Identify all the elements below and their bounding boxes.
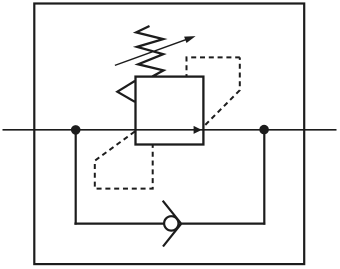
check valve V1 seat [163,201,182,247]
wire bottom left segment [74,223,164,225]
node right junction [259,125,269,135]
regulator body U1 [136,77,204,145]
pilot line right diagonal (dashed) [204,57,240,126]
adjustment arrow head [184,36,196,43]
relief vent triangle [117,81,135,102]
flow arrow [194,126,202,134]
main flow line [3,129,337,131]
node left junction [71,125,81,135]
adjustment arrow shaft [115,39,189,66]
pilot line right (dashed) [187,57,240,76]
wire bottom right segment [181,223,266,225]
enclosure box [34,4,304,265]
wire left riser [75,130,77,225]
adjustment spring [136,26,163,77]
check valve V1 circle [164,216,178,230]
wire right riser [263,130,265,225]
pilot line left (dashed) [95,132,153,189]
